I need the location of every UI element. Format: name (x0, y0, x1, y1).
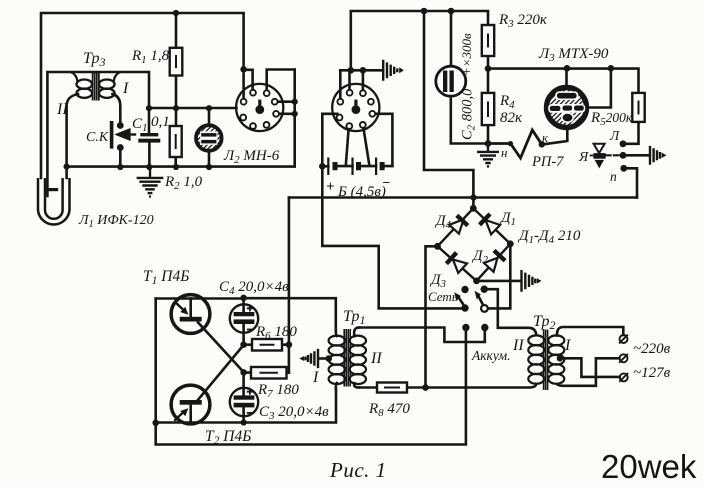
svg-text:II: II (56, 101, 68, 118)
svg-text:С.К: С.К (86, 130, 109, 145)
svg-text:С2 800,0: С2 800,0 (460, 88, 478, 140)
svg-text:82к: 82к (500, 110, 523, 126)
svg-text:R2 1,0: R2 1,0 (164, 174, 203, 192)
svg-text:20wek: 20wek (601, 448, 697, 485)
svg-text:I: I (312, 369, 319, 386)
svg-text:+×300в: +×300в (459, 33, 474, 76)
svg-text:~220в: ~220в (633, 341, 671, 357)
svg-text:0,1: 0,1 (151, 114, 170, 130)
svg-text:Сеть: Сеть (428, 289, 458, 304)
svg-text:Л3 МТХ-90: Л3 МТХ-90 (538, 46, 609, 64)
svg-text:п: п (610, 169, 617, 184)
svg-text:R7 180: R7 180 (257, 382, 299, 400)
svg-text:R8 470: R8 470 (368, 401, 410, 419)
svg-text:II: II (370, 350, 382, 367)
svg-text:II: II (512, 337, 524, 354)
svg-text:Я: Я (578, 150, 589, 165)
svg-text:Б (4,5в): Б (4,5в) (337, 184, 386, 200)
svg-text:I: I (564, 337, 571, 354)
svg-text:Рис. 1: Рис. 1 (329, 458, 387, 482)
svg-text:Л: Л (609, 128, 620, 143)
svg-text:к: к (542, 130, 549, 145)
svg-text:н: н (501, 145, 507, 160)
svg-text:~127в: ~127в (633, 365, 671, 381)
svg-text:Аккум.: Аккум. (471, 348, 511, 363)
svg-text:R1 1,8: R1 1,8 (131, 48, 170, 66)
svg-text:Л2 МН-6: Л2 МН-6 (223, 148, 280, 166)
svg-text:I: I (122, 80, 129, 97)
svg-text:R6 180: R6 180 (255, 324, 297, 342)
svg-text:−: − (382, 176, 390, 191)
svg-text:РП-7: РП-7 (531, 154, 564, 170)
svg-text:Т2 П4Б: Т2 П4Б (205, 428, 251, 447)
svg-text:Т1 П4Б: Т1 П4Б (143, 268, 189, 287)
svg-text:R3 220к: R3 220к (498, 12, 548, 30)
svg-text:+: + (326, 179, 335, 195)
